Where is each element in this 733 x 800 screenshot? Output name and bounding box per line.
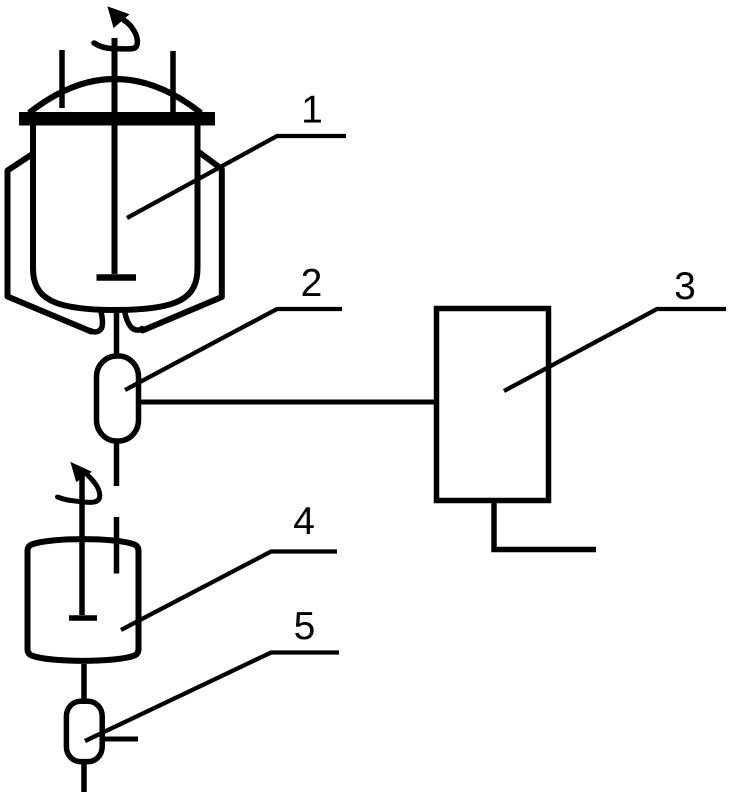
svg-text:4: 4 (293, 500, 315, 543)
svg-text:2: 2 (301, 262, 323, 305)
svg-text:3: 3 (674, 265, 696, 308)
svg-text:1: 1 (301, 88, 323, 131)
svg-text:5: 5 (294, 605, 316, 648)
